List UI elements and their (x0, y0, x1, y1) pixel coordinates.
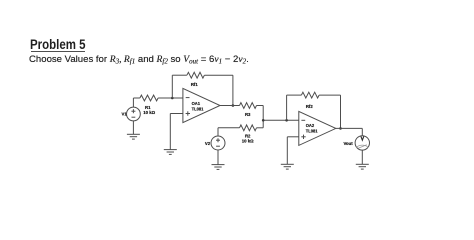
svg-text:TL081: TL081 (192, 107, 205, 112)
svg-text:Rf2: Rf2 (306, 104, 314, 109)
svg-text:R3: R3 (245, 112, 251, 117)
svg-text:Vout: Vout (343, 141, 353, 146)
svg-text:OA2: OA2 (306, 123, 315, 128)
svg-text:OA1: OA1 (192, 101, 201, 106)
svg-text:V2: V2 (205, 141, 211, 146)
svg-text:10 kΩ: 10 kΩ (242, 139, 254, 144)
svg-text:10 kΩ: 10 kΩ (143, 110, 155, 115)
svg-text:Rf1: Rf1 (191, 82, 199, 87)
svg-text:V1: V1 (122, 112, 128, 117)
svg-text:TL081: TL081 (306, 128, 319, 133)
